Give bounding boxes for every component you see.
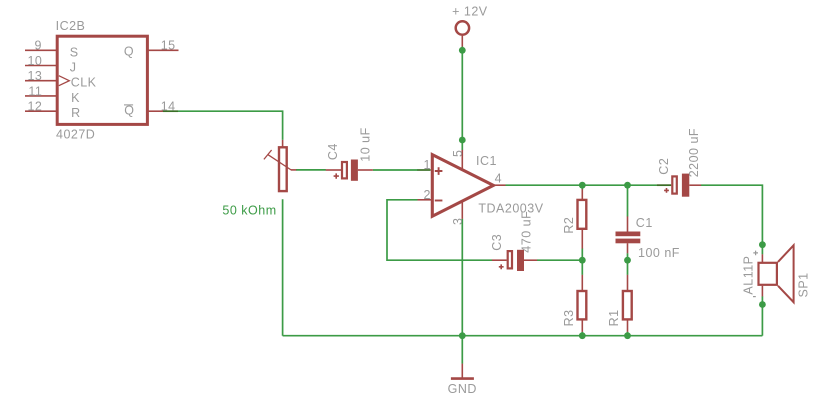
wire speaker bottom down [761, 296, 763, 336]
potentiometer wiper pin [291, 169, 296, 171]
C1 bottom lead [627, 243, 629, 253]
Qbar overline [124, 104, 133, 106]
wire overlap on IC1 pin1 [418, 169, 431, 171]
resistor R1 body [623, 291, 632, 319]
junction output rail at C1 [624, 182, 631, 189]
svg-text:13: 13 [27, 69, 42, 83]
wire R2 top stub [581, 185, 583, 189]
PIN STUBS (maroon) [25, 36, 762, 378]
IC1 pin5 stub [461, 150, 463, 170]
junction ground rail at GND [459, 332, 466, 339]
svg-text:50 kOhm: 50 kOhm [222, 203, 276, 217]
capacitor C3 left plate [508, 251, 512, 268]
svg-text:J: J [70, 61, 77, 75]
R3 bottom lead [581, 320, 583, 332]
IC2B pin 13 [25, 80, 57, 82]
C3 right lead [524, 259, 537, 261]
junction C1 bottom node [624, 257, 631, 264]
svg-text:2: 2 [424, 188, 431, 202]
DARK OVERLAP SEGMENTS (wire over pin) [163, 111, 671, 185]
wire R3 top stub [581, 260, 583, 275]
R3 top lead [581, 275, 583, 291]
svg-text:GND: GND [448, 382, 477, 396]
C2 right lead [689, 184, 701, 186]
IC1 pin3 stub [461, 201, 463, 219]
capacitor C3 plus sign [499, 264, 504, 269]
potentiometer wiper arrow [268, 155, 291, 170]
svg-text:4: 4 [495, 172, 502, 186]
+12V supply stub [461, 36, 463, 47]
wire pot bottom to ground rail [282, 199, 284, 335]
wire IC1 pin2 feedback to C3 [387, 200, 492, 260]
IC1 minus input marker [435, 200, 443, 202]
svg-text:2200 uF: 2200 uF [687, 128, 701, 177]
junction output rail at R2 [579, 182, 586, 189]
svg-text:11: 11 [28, 84, 42, 98]
svg-text:SP1: SP1 [797, 272, 811, 297]
R2 top lead [581, 189, 583, 199]
svg-text:10: 10 [27, 54, 42, 68]
svg-text:C1: C1 [636, 216, 653, 230]
capacitor C2 plus sign [664, 188, 669, 193]
GND bar [451, 377, 474, 380]
capacitor C1 top plate [616, 232, 641, 237]
junction below speaker [759, 301, 766, 308]
svg-text:15: 15 [161, 39, 176, 53]
R1 bottom lead [627, 320, 629, 332]
junction R2 bottom node [579, 257, 586, 264]
C4 right lead [358, 169, 373, 171]
op-amp IC1 triangle [432, 155, 493, 217]
speaker bottom stub [761, 286, 763, 297]
+12V supply circle [456, 21, 469, 34]
svg-text:3: 3 [451, 218, 465, 225]
svg-text:12: 12 [27, 100, 42, 114]
wire pin14 net to potentiometer top [178, 111, 283, 140]
svg-text:1: 1 [424, 158, 431, 172]
speaker plus marker [753, 251, 758, 256]
wire R2 bottom stub [581, 248, 583, 260]
svg-text:470 uF: 470 uF [519, 211, 533, 253]
svg-text:TDA2003V: TDA2003V [478, 202, 543, 216]
capacitor C2 right plate [682, 174, 689, 197]
C3 left lead [492, 259, 507, 261]
IC2B clock wedge [59, 76, 70, 86]
svg-text:R: R [71, 106, 81, 120]
wire output rail pin4 to C2 [506, 184, 658, 186]
resistor R3 body [578, 291, 587, 319]
wire pot wiper to C4 [296, 169, 326, 171]
GND stub [461, 364, 463, 378]
IC2B pin 15 [148, 49, 179, 51]
IC2B pin 10 [25, 65, 57, 67]
potentiometer top pin [282, 140, 284, 147]
R1 top lead [627, 275, 629, 291]
wire C2 to speaker top [701, 185, 762, 254]
svg-text:C4: C4 [326, 143, 340, 160]
junction ground rail at R3 [579, 332, 586, 339]
C4 left lead [326, 169, 342, 171]
wire C1 top stub [627, 185, 629, 216]
svg-text:+ 12V: + 12V [452, 4, 488, 18]
svg-text:IC1: IC1 [476, 154, 497, 168]
capacitor C4 left plate [342, 162, 347, 178]
speaker minus marker [753, 296, 756, 298]
potentiometer wiper crossbar [264, 150, 272, 159]
svg-text:AL11P: AL11P [742, 255, 756, 294]
wire +12V down to IC1 pin5 [461, 47, 463, 151]
C2 left lead [657, 184, 671, 186]
svg-text:10 uF: 10 uF [358, 127, 372, 161]
IC1 plus input marker [435, 167, 443, 175]
svg-text:Q: Q [124, 103, 134, 117]
svg-text:K: K [71, 91, 80, 105]
speaker top stub [761, 254, 763, 262]
IC2B pin 9 [25, 49, 57, 51]
capacitor C2 left plate [672, 176, 677, 193]
wire overlap on C2 left lead [657, 184, 671, 186]
C1 top lead [627, 216, 629, 231]
capacitor C4 plus sign [334, 173, 339, 178]
junction above speaker [759, 241, 766, 248]
R2 bottom lead [581, 230, 583, 249]
junction above IC1 pin5 [459, 137, 466, 144]
IC1 pin4 stub [493, 184, 505, 186]
IC2B box outline [57, 36, 147, 124]
junction below +12V [459, 47, 466, 54]
svg-text:14: 14 [161, 100, 176, 114]
IC2B pin 11 [25, 95, 57, 97]
svg-text:4027D: 4027D [56, 128, 95, 142]
wire IC1 pin3 down to GND [461, 219, 463, 364]
svg-text:100 nF: 100 nF [638, 246, 680, 260]
junction ground rail at R1 [624, 332, 631, 339]
wire R1 top stub [627, 260, 629, 275]
wire R3 bottom stub [581, 332, 583, 336]
wire overlap on pin 14 [163, 110, 178, 112]
svg-text:C2: C2 [657, 158, 671, 175]
svg-text:9: 9 [35, 39, 42, 53]
wire C1 bottom stub [627, 253, 629, 260]
svg-text:Q: Q [124, 44, 134, 58]
svg-text:IC2B: IC2B [56, 19, 86, 33]
IC2B pin 12 [25, 110, 57, 112]
speaker SP1 horn [778, 245, 794, 302]
IC2B pin 14 [148, 110, 163, 112]
potentiometer R body [279, 147, 287, 191]
wire C4 to IC1 pin1 [373, 169, 418, 171]
svg-text:5: 5 [451, 150, 465, 157]
IC1 pin2 stub [418, 199, 433, 201]
svg-text:R2: R2 [562, 217, 576, 234]
wire R1 bottom stub [627, 332, 629, 336]
svg-text:R1: R1 [607, 309, 621, 326]
capacitor C1 bottom plate [616, 239, 641, 244]
capacitor C3 right plate [517, 250, 524, 271]
wire bottom ground rail [283, 335, 763, 337]
svg-text:R3: R3 [562, 309, 576, 326]
svg-text:C3: C3 [490, 234, 504, 251]
capacitor C4 right plate [351, 160, 358, 181]
wire C3 to R2 bottom node [537, 259, 582, 261]
svg-text:CLK: CLK [71, 76, 97, 90]
svg-text:S: S [70, 45, 79, 59]
speaker SP1 square [759, 263, 777, 285]
resistor R2 body [578, 200, 587, 229]
